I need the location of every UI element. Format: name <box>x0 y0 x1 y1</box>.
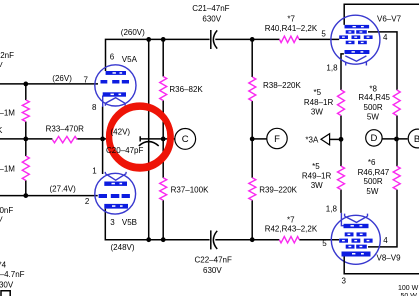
resistor R40,R41 <box>280 36 300 42</box>
resistor R49 <box>338 166 345 190</box>
svg-text:R46,R47: R46,R47 <box>358 168 390 177</box>
svg-text:7: 7 <box>84 75 89 84</box>
svg-text:R48–1R: R48–1R <box>304 98 334 107</box>
svg-text:5W: 5W <box>367 112 379 121</box>
svg-text:1: 1 <box>92 166 97 175</box>
svg-text:R44,R45: R44,R45 <box>358 93 390 102</box>
junction 260V rail x252.3 <box>250 37 255 42</box>
wire V8V9 anode bottom rail <box>344 257 419 274</box>
wire 27.4V row V5B pin2 <box>0 195 98 197</box>
capacitor C21 curved plate <box>213 30 217 48</box>
resistor R31 1M upper <box>22 100 29 122</box>
svg-text:(26V): (26V) <box>52 74 72 83</box>
svg-text:R38–220K: R38–220K <box>263 81 301 90</box>
V5A anode bar <box>106 71 126 75</box>
wire vertical x148.6 <box>148 39 150 239</box>
V5A cathode lead blue segment <box>102 96 104 107</box>
svg-text:8: 8 <box>92 103 97 112</box>
wire 42V row right to node C <box>140 138 175 140</box>
V6V7 heater <box>345 56 366 66</box>
node C <box>175 129 196 150</box>
resistor R36 <box>160 77 167 101</box>
wire 42V row left <box>0 138 110 140</box>
resistor R46,R47 <box>393 166 400 190</box>
capacitor C21 plate <box>210 30 212 49</box>
junction D-B x396.5 <box>394 137 399 142</box>
svg-text:0V: 0V <box>0 215 3 224</box>
junction 42V x163 <box>161 137 166 142</box>
svg-text:34–1M: 34–1M <box>0 108 15 117</box>
svg-text:B: B <box>414 134 419 145</box>
junction 260V rail x148.6 <box>146 37 151 42</box>
svg-text:630V: 630V <box>202 15 221 24</box>
tube V6-V7 <box>331 15 380 65</box>
svg-text:(260V): (260V) <box>121 28 145 37</box>
svg-text:D: D <box>370 133 377 144</box>
svg-text:R33–470R: R33–470R <box>46 124 84 133</box>
tube V8-V9 <box>331 213 380 264</box>
svg-text:(27.4V): (27.4V) <box>50 185 77 194</box>
svg-text:4–4.7nF: 4–4.7nF <box>0 270 25 279</box>
capacitor C20 curved plate <box>139 142 159 146</box>
svg-text:*4: *4 <box>0 261 7 270</box>
V6V7 beam bars <box>346 41 355 45</box>
wire vertical x252.3 <box>251 39 253 239</box>
junction 27.4V rail <box>23 193 28 198</box>
capacitor C20 straight plate tick <box>139 136 141 141</box>
resistor R48 <box>338 90 345 116</box>
svg-text:V5A: V5A <box>122 55 138 64</box>
capacitor C22 plate <box>210 230 212 249</box>
svg-text:*7: *7 <box>287 14 295 23</box>
V6V7 screen bars <box>346 30 355 34</box>
junction cathode x341 <box>339 137 344 142</box>
svg-text:5: 5 <box>322 239 327 248</box>
svg-text:5W: 5W <box>366 187 378 196</box>
wire vertical x163 upper <box>162 39 164 239</box>
svg-text:1,8: 1,8 <box>326 204 338 213</box>
svg-text:0V: 0V <box>0 60 3 69</box>
svg-text:V6–V7: V6–V7 <box>377 15 402 24</box>
V8V9 screen bars <box>346 245 355 249</box>
svg-text:(42V): (42V) <box>111 128 131 137</box>
V8V9 beam bars <box>345 232 354 236</box>
svg-text:C21–47nF: C21–47nF <box>192 4 229 13</box>
svg-text:1,8: 1,8 <box>326 64 338 73</box>
V5B grid dashes <box>99 194 107 198</box>
V5A cathode bar <box>103 92 126 96</box>
node F <box>267 128 287 148</box>
svg-text:630V: 630V <box>0 281 14 290</box>
V6V7 anode bar <box>345 25 370 29</box>
svg-text:500R: 500R <box>364 103 383 112</box>
wire 260V rail with V5A anode lead <box>106 39 340 71</box>
resistor R33 <box>52 136 77 142</box>
junction 42V x102.6 <box>100 137 105 142</box>
svg-text:6: 6 <box>110 52 115 61</box>
junction 248V x163 <box>161 237 166 242</box>
svg-text:C20–47pF: C20–47pF <box>106 146 143 155</box>
V6V7 cathode bar <box>345 50 370 54</box>
svg-text:V5B: V5B <box>122 218 137 227</box>
svg-text:C22–47nF: C22–47nF <box>195 255 232 264</box>
svg-text:3W: 3W <box>311 181 323 190</box>
svg-text:5: 5 <box>321 29 326 38</box>
wire V6V7 pin4 to right rail <box>368 32 397 247</box>
resistor R44,R45 <box>393 90 400 116</box>
tube V5B <box>95 172 136 214</box>
svg-text:100 W: 100 W <box>398 285 419 292</box>
V5A heater <box>105 98 125 106</box>
svg-text:R49–1R: R49–1R <box>302 171 332 180</box>
arrow *3A <box>330 138 341 140</box>
svg-text:R36–82K: R36–82K <box>169 85 203 94</box>
resistor R39 <box>249 178 256 201</box>
resistor R37 <box>160 178 167 201</box>
V6V7 grid bars <box>339 35 348 39</box>
svg-text:630V: 630V <box>203 266 222 275</box>
svg-text:*3A: *3A <box>305 135 319 144</box>
V8V9 anode bar <box>342 252 371 257</box>
svg-text:R42,R43–2,2K: R42,R43–2,2K <box>265 224 318 233</box>
wire 248V rail with V5B anode lead <box>105 209 339 240</box>
svg-text:3: 3 <box>110 218 115 227</box>
svg-text:V8–V9: V8–V9 <box>377 253 402 262</box>
V5A grid dashes <box>101 80 108 84</box>
svg-text:*5: *5 <box>314 88 322 97</box>
wire V6V7 anode top rail <box>344 4 419 25</box>
V8V9 heater <box>341 213 367 226</box>
V5B anode bar <box>104 204 128 209</box>
svg-text:R40,R41–2,2K: R40,R41–2,2K <box>265 24 318 33</box>
junction 248V x148.6 <box>146 237 151 242</box>
wire V6V7 cathode rail x341 <box>341 54 344 213</box>
node B <box>408 129 419 148</box>
svg-text:00nF: 00nF <box>0 206 13 215</box>
node D <box>382 138 408 140</box>
tube V5A <box>95 65 136 106</box>
wire node F stub <box>252 138 267 140</box>
svg-text:2: 2 <box>85 197 90 206</box>
resistor R32 1M lower <box>22 156 29 180</box>
wire grid V5A pin7 26V <box>0 83 98 85</box>
svg-text:R37–100K: R37–100K <box>171 186 209 195</box>
V8V9 cathode bar <box>344 224 369 228</box>
junction 26V rail <box>23 82 28 87</box>
resistor R38 <box>249 77 256 101</box>
junction 260V rail x163 <box>161 37 166 42</box>
red annotation circle <box>109 106 171 169</box>
wire V5A cathode to V5B pin1 <box>102 107 104 175</box>
V8V9 grid bars <box>339 239 348 243</box>
terminal box bottom left <box>1 291 10 296</box>
svg-text:*6: *6 <box>368 158 376 167</box>
svg-text:34–1M: 34–1M <box>0 165 15 174</box>
junction 248V x252.3 <box>250 237 255 242</box>
svg-text:500R: 500R <box>364 177 383 186</box>
svg-text:2nF: 2nF <box>0 51 14 60</box>
svg-text:4: 4 <box>383 236 388 245</box>
svg-text:4: 4 <box>383 33 388 42</box>
junction F x252.3 <box>250 137 255 142</box>
V5B heater <box>105 172 126 180</box>
svg-text:3: 3 <box>342 276 347 285</box>
wire left rail x25.8 <box>25 84 27 196</box>
svg-text:(248V): (248V) <box>111 243 135 252</box>
resistor R42,R43 <box>279 237 299 243</box>
capacitor C22 curved plate <box>213 231 217 249</box>
svg-text:*5: *5 <box>312 162 320 171</box>
junction 42V x25.8 <box>23 137 28 142</box>
V5B cathode bar <box>104 182 127 186</box>
svg-text:C: C <box>182 134 189 145</box>
svg-text:3W: 3W <box>311 108 323 117</box>
svg-text:R39–220K: R39–220K <box>259 186 297 195</box>
svg-text:F: F <box>274 134 280 145</box>
